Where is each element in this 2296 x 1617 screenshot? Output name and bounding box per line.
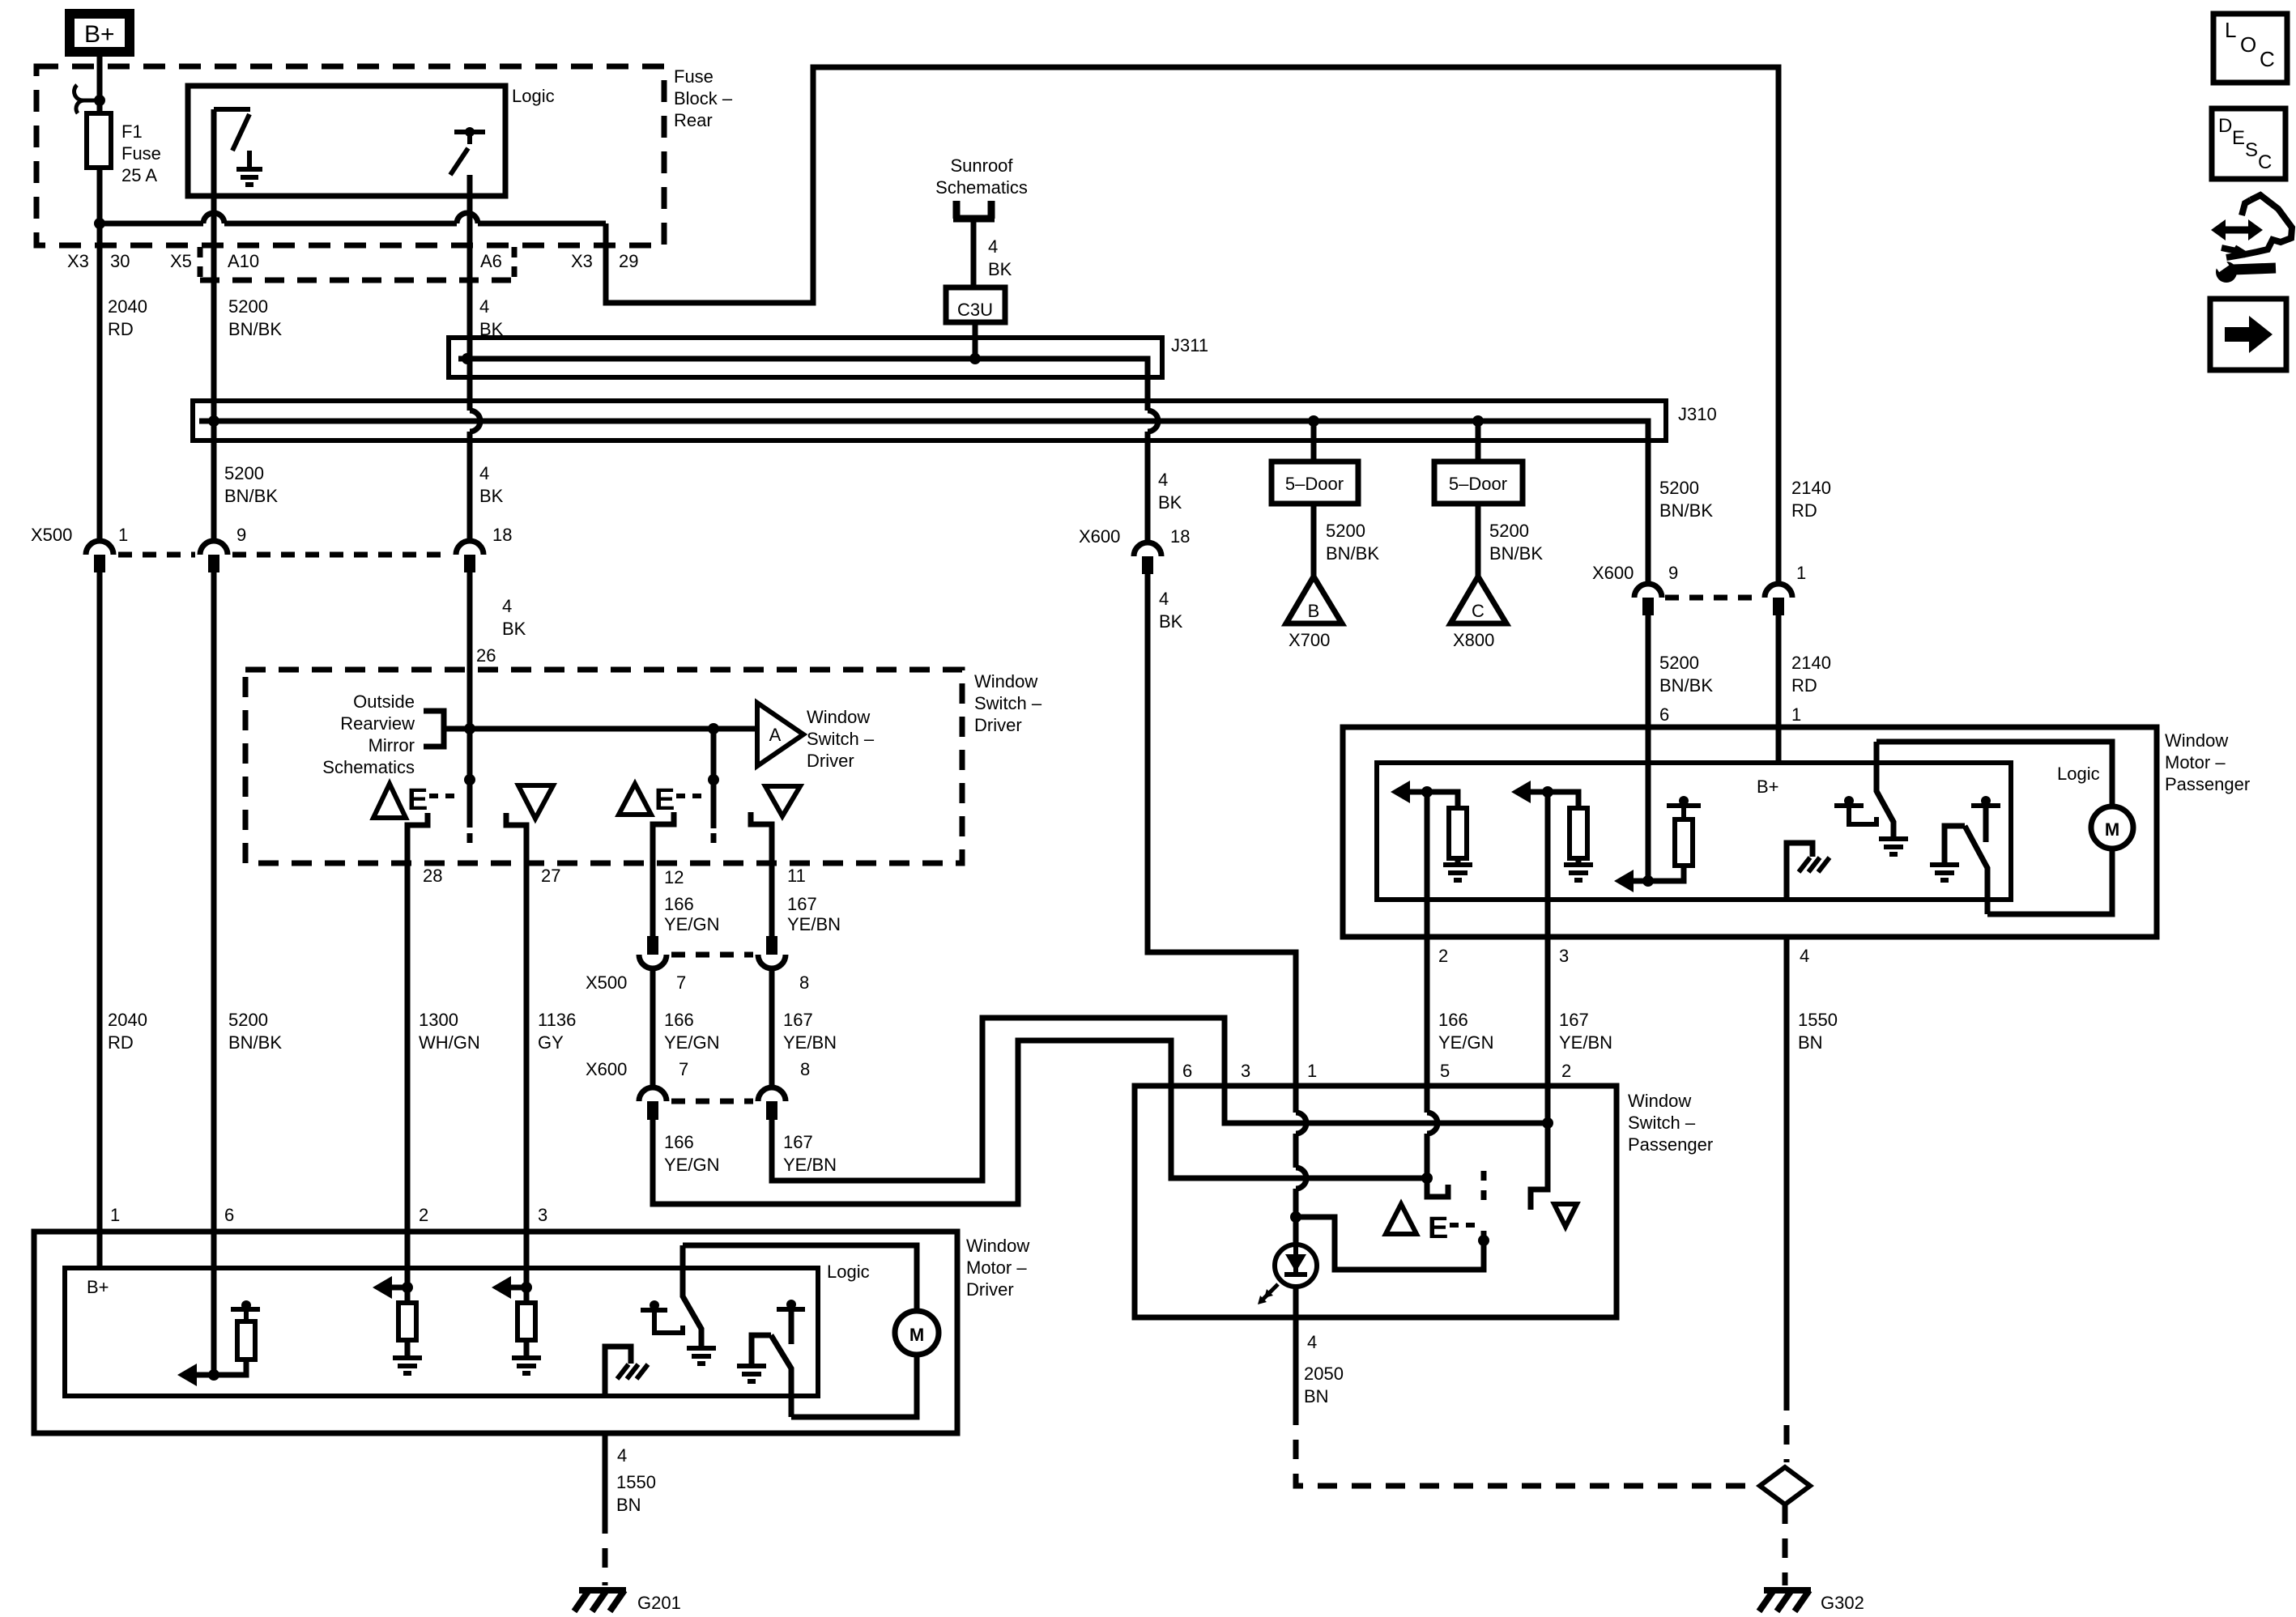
- svg-text:18: 18: [1170, 526, 1190, 547]
- svg-text:C: C: [2260, 47, 2275, 71]
- down triangle driver: [518, 785, 553, 819]
- svg-text:9: 9: [236, 525, 246, 545]
- connector X500 pin18: [456, 541, 483, 572]
- svg-text:4: 4: [479, 296, 489, 317]
- svg-text:2040: 2040: [108, 296, 147, 317]
- svg-text:25 A: 25 A: [121, 165, 157, 185]
- svg-text:4: 4: [502, 596, 512, 616]
- svg-text:1: 1: [110, 1205, 120, 1225]
- passenger relay1 pivot dot: [1844, 796, 1854, 806]
- svg-text:1136: 1136: [538, 1010, 576, 1030]
- window motor driver logic box: [65, 1268, 818, 1396]
- svg-text:9: 9: [1668, 563, 1678, 583]
- svg-text:5200: 5200: [1489, 521, 1529, 541]
- svg-text:2040: 2040: [108, 1010, 147, 1030]
- svg-text:A6: A6: [480, 251, 502, 271]
- svg-text:Logic: Logic: [827, 1262, 870, 1282]
- passenger pin3 resistor branch: [1548, 792, 1587, 865]
- driver relay1 pivot bar: [641, 1308, 667, 1313]
- ground G201 symbol: [574, 1590, 626, 1611]
- svg-text:166: 166: [1438, 1010, 1468, 1030]
- five door option box B: [1272, 462, 1358, 504]
- svg-text:BN/BK: BN/BK: [1659, 675, 1713, 696]
- wire X600-7 to passenger pin6: [653, 1040, 1427, 1204]
- wire pin1 dot to plunger: [1296, 1217, 1484, 1270]
- wire passenger pin2 down: [1425, 792, 1430, 900]
- hop pin5 over H1387: [1427, 1113, 1438, 1134]
- svg-text:C3U: C3U: [957, 300, 993, 320]
- motor M passenger: [2091, 806, 2133, 849]
- passenger relay1 blade: [1876, 763, 1893, 839]
- connector strip X5 tick right: [512, 247, 518, 279]
- svg-text:L: L: [2225, 18, 2236, 42]
- driver pin6 resistor: [237, 1321, 255, 1360]
- svg-text:BK: BK: [1158, 492, 1182, 513]
- junction dot J310 left: [208, 415, 219, 427]
- switch plunger 2: [711, 729, 717, 828]
- five door option box C: [1434, 462, 1523, 504]
- wire X600-1 to motor: [1776, 615, 1782, 727]
- driver relay1 ground: [687, 1348, 716, 1364]
- svg-text:1: 1: [118, 525, 128, 545]
- junction dot plunger 1: [464, 774, 475, 785]
- dashed ground run 2050: [1296, 1406, 1750, 1486]
- svg-text:167: 167: [1559, 1010, 1589, 1030]
- window motor passenger outer box: [1343, 727, 2157, 937]
- svg-text:2: 2: [419, 1205, 428, 1225]
- legend DESC box: [2212, 109, 2285, 179]
- svg-text:5–Door: 5–Door: [1285, 474, 1344, 494]
- svg-text:5: 5: [1440, 1061, 1450, 1081]
- switch to ground in logic: [214, 109, 250, 169]
- svg-text:Window: Window: [807, 707, 870, 727]
- driver pin3 ground: [512, 1358, 541, 1373]
- passenger pin2 ground: [1443, 865, 1472, 880]
- passenger pin3 ground: [1564, 865, 1593, 880]
- driver pin2 resistor: [398, 1287, 416, 1358]
- splice pack J311 box: [449, 338, 1162, 377]
- motor M driver: [895, 1311, 939, 1355]
- svg-text:28: 28: [423, 866, 442, 886]
- svg-text:11: 11: [787, 866, 806, 886]
- svg-text:C: C: [2258, 151, 2272, 173]
- passenger relay1 pivot bar: [1834, 803, 1864, 808]
- svg-text:Window: Window: [2165, 730, 2228, 751]
- svg-text:5200: 5200: [228, 1010, 268, 1030]
- contact pin 12: [653, 812, 674, 936]
- wire 2040 RD to X500-1: [97, 223, 103, 541]
- svg-text:1: 1: [1307, 1061, 1317, 1081]
- svg-text:4: 4: [1158, 470, 1168, 490]
- contact pin 11: [751, 812, 772, 936]
- driver relay2 ground: [737, 1366, 766, 1381]
- driver pin6 arrow line: [194, 1372, 214, 1378]
- junction dot plunger bottom: [1478, 1235, 1489, 1246]
- connector X500 7-8 dashed: [671, 952, 753, 958]
- window motor passenger logic box: [1377, 763, 2011, 900]
- svg-text:Passenger: Passenger: [2165, 774, 2250, 794]
- passenger relay2 blade: [1965, 826, 1987, 914]
- svg-text:1300: 1300: [419, 1010, 458, 1030]
- connector X600 pin7: [639, 1087, 667, 1120]
- svg-text:BN/BK: BN/BK: [228, 319, 282, 339]
- ground G302 symbol: [1759, 1590, 1811, 1611]
- junction dot J311 left: [462, 353, 473, 364]
- driver relay2 contact: [752, 1335, 771, 1366]
- svg-text:X3: X3: [571, 251, 593, 271]
- svg-text:X3: X3: [67, 251, 89, 271]
- junction dot driver pin2: [402, 1282, 413, 1293]
- svg-text:4: 4: [1159, 589, 1169, 609]
- svg-text:4: 4: [479, 463, 489, 483]
- passenger relay2 contact: [1945, 826, 1965, 865]
- svg-text:3: 3: [1241, 1061, 1250, 1081]
- driver pin2 ground: [393, 1358, 422, 1373]
- connector X600 pin8: [758, 1087, 786, 1120]
- driver relay2 blade: [771, 1335, 791, 1417]
- svg-text:Motor –: Motor –: [2165, 752, 2226, 772]
- svg-text:Schematics: Schematics: [935, 177, 1028, 198]
- svg-text:Logic: Logic: [512, 86, 555, 106]
- svg-text:X700: X700: [1289, 630, 1330, 650]
- driver relay2 pivot dot: [786, 1300, 796, 1309]
- svg-text:3: 3: [538, 1205, 547, 1225]
- legend wrench jaw notch: [2214, 258, 2229, 272]
- wire passenger motor pin3 to switch pin2: [1531, 900, 1548, 1210]
- passenger pin2 arrow line: [1408, 789, 1427, 795]
- svg-text:166: 166: [664, 1010, 694, 1030]
- svg-text:X5: X5: [170, 251, 192, 271]
- svg-text:2: 2: [1438, 946, 1448, 966]
- switch A6 pivot dot: [465, 127, 475, 137]
- driver pin6 resistor link: [214, 1360, 246, 1375]
- svg-text:C: C: [1472, 601, 1485, 621]
- E dash link driver 2: [676, 794, 708, 798]
- svg-text:M: M: [2105, 819, 2119, 840]
- svg-text:5200: 5200: [224, 463, 264, 483]
- svg-text:X600: X600: [1079, 526, 1120, 547]
- wire passenger motor pin4 out: [1784, 937, 1790, 1391]
- wire fuse to junction: [97, 168, 103, 223]
- svg-text:6: 6: [224, 1205, 234, 1225]
- svg-text:RD: RD: [108, 319, 134, 339]
- wire C3U to J311: [973, 322, 978, 359]
- svg-text:5–Door: 5–Door: [1449, 474, 1507, 494]
- svg-text:Driver: Driver: [974, 715, 1022, 735]
- svg-text:Motor –: Motor –: [966, 1257, 1027, 1278]
- svg-text:Outside: Outside: [353, 691, 415, 712]
- svg-text:BK: BK: [479, 486, 504, 506]
- logic box fuse block: [188, 86, 505, 196]
- svg-text:B: B: [1308, 601, 1320, 621]
- junction clip dot: [94, 95, 105, 106]
- dashed run diamond to G302: [1783, 1504, 1788, 1585]
- LED cathode bar: [1284, 1272, 1307, 1277]
- junction dot passenger H1387: [1542, 1117, 1553, 1129]
- junction dot plunger2: [708, 723, 719, 734]
- svg-text:Fuse: Fuse: [121, 143, 161, 164]
- down triangle driver 2: [765, 786, 800, 816]
- svg-text:B+: B+: [1757, 777, 1779, 797]
- wire B+ to fuse: [97, 52, 103, 113]
- wire J310 to 5-door C: [1476, 421, 1481, 577]
- connector X500 dashed line: [118, 552, 451, 558]
- connector C3U box: [946, 287, 1005, 322]
- legend hand icon outline: [2234, 195, 2292, 254]
- svg-text:8: 8: [800, 1059, 810, 1079]
- svg-text:5200: 5200: [1659, 478, 1699, 498]
- wire passenger motor pin2 to switch pin5: [1427, 900, 1448, 1197]
- svg-text:30: 30: [110, 251, 130, 271]
- svg-text:Driver: Driver: [966, 1279, 1014, 1300]
- wire passenger motor pin3 out: [1545, 900, 1551, 937]
- wire 1300 to driver motor pin2: [405, 1232, 411, 1287]
- svg-text:Mirror: Mirror: [368, 735, 415, 755]
- fuse F1: [87, 113, 111, 168]
- off page triangle B: [1286, 577, 1342, 623]
- driver chassis ground leg: [605, 1347, 631, 1396]
- wire hop J311 wire over J310: [1148, 411, 1158, 432]
- svg-text:2140: 2140: [1791, 478, 1831, 498]
- svg-text:166: 166: [664, 894, 694, 914]
- dashed ground run G201: [603, 1514, 608, 1585]
- svg-text:1: 1: [1796, 563, 1806, 583]
- svg-text:D: D: [2218, 115, 2232, 137]
- connector X600 pin18: [1134, 543, 1161, 574]
- svg-text:BN/BK: BN/BK: [1659, 500, 1713, 521]
- passenger relay1 ground: [1879, 839, 1908, 854]
- passenger pin6 contact bar: [1667, 806, 1701, 819]
- wire X500-7 to X600-7: [650, 968, 656, 1087]
- driver pin6 contact bar: [231, 1309, 260, 1321]
- svg-text:E: E: [654, 783, 675, 817]
- svg-text:RD: RD: [1791, 500, 1817, 521]
- passenger pin2 resistor branch: [1427, 792, 1467, 865]
- svg-text:WH/GN: WH/GN: [419, 1032, 480, 1053]
- svg-text:BN: BN: [1304, 1386, 1329, 1406]
- wire passenger motor pin2 out: [1425, 900, 1430, 937]
- mirror bracket: [424, 711, 444, 747]
- window switch driver dashed box: [245, 670, 962, 863]
- svg-text:M: M: [909, 1325, 924, 1345]
- svg-text:Switch –: Switch –: [974, 693, 1042, 713]
- wire passenger pin3 down: [1545, 792, 1551, 900]
- wire mirror to triangle A: [444, 726, 757, 732]
- sunroof bracket: [953, 201, 995, 219]
- svg-text:8: 8: [799, 972, 809, 993]
- E dash link passenger: [1450, 1223, 1481, 1228]
- wire driver pin4: [603, 1433, 608, 1514]
- passenger motor loop: [1876, 742, 2112, 914]
- svg-text:X600: X600: [586, 1059, 627, 1079]
- legend double arrow shaft: [2222, 227, 2251, 234]
- svg-text:YE/GN: YE/GN: [1438, 1032, 1493, 1053]
- plunger 1 dash: [467, 833, 473, 843]
- passenger relay2 pivot bar: [1971, 803, 2000, 808]
- passenger pin3 arrow: [1511, 781, 1531, 803]
- svg-text:S: S: [2245, 139, 2258, 161]
- wire X500-18 to driver switch pin26: [467, 572, 473, 729]
- svg-text:Window: Window: [966, 1236, 1029, 1256]
- svg-text:BN/BK: BN/BK: [224, 486, 278, 506]
- svg-text:BK: BK: [502, 619, 526, 639]
- passenger chassis ground leg: [1787, 843, 1813, 900]
- svg-text:Switch –: Switch –: [807, 729, 875, 749]
- wire J310 bus: [199, 421, 1648, 584]
- svg-text:Logic: Logic: [2057, 764, 2100, 784]
- junction dot C3U J311: [969, 353, 981, 364]
- driver pin3 arrow line: [509, 1285, 526, 1291]
- svg-text:7: 7: [676, 972, 686, 993]
- wire LED to pin4: [1293, 1287, 1299, 1406]
- legend hand icon cuff: [2221, 248, 2245, 257]
- svg-text:BK: BK: [1159, 611, 1183, 632]
- connector X500 pin1: [86, 541, 113, 572]
- svg-text:4: 4: [1307, 1332, 1317, 1352]
- ground in logic box: [236, 169, 262, 185]
- down triangle passenger: [1554, 1204, 1577, 1227]
- junction dot fuse output: [94, 218, 105, 229]
- svg-text:1: 1: [1791, 704, 1801, 725]
- svg-text:E: E: [407, 783, 428, 817]
- svg-text:A: A: [769, 725, 782, 745]
- svg-text:2140: 2140: [1791, 653, 1831, 673]
- svg-text:YE/BN: YE/BN: [783, 1155, 837, 1175]
- svg-text:2: 2: [1561, 1061, 1571, 1081]
- contact pin 27: [506, 813, 526, 1232]
- wire J311 bus: [458, 359, 1148, 543]
- svg-text:27: 27: [541, 866, 560, 886]
- connector X600 pin9: [1634, 584, 1662, 615]
- wire hop over A10: [203, 213, 224, 223]
- junction dot passenger pin1: [1290, 1211, 1301, 1223]
- passenger relay2 ground: [1930, 865, 1959, 880]
- svg-text:X600: X600: [1592, 563, 1634, 583]
- wire 5200 to driver motor: [211, 572, 217, 1375]
- wire hop A6 over J310: [470, 411, 480, 432]
- svg-text:X500: X500: [586, 972, 627, 993]
- junction dot plunger 2 low: [708, 774, 719, 785]
- wire A6 branch: [467, 175, 473, 541]
- svg-text:YE/GN: YE/GN: [664, 1155, 719, 1175]
- svg-text:Schematics: Schematics: [322, 757, 415, 777]
- contact pin 28: [407, 813, 428, 1232]
- junction dot pin26 wire: [464, 723, 475, 734]
- svg-text:Window: Window: [1628, 1091, 1691, 1111]
- svg-text:4: 4: [1800, 946, 1809, 966]
- svg-text:YE/GN: YE/GN: [664, 1032, 719, 1053]
- svg-text:1550: 1550: [1798, 1010, 1838, 1030]
- legend LOC box: [2213, 14, 2287, 83]
- connector X500 pin9: [200, 541, 228, 572]
- wire X500-8 to X600-8: [769, 968, 775, 1087]
- LED wire top: [1293, 1217, 1299, 1245]
- driver pin2 arrow: [373, 1276, 392, 1299]
- connector X600 7-8 dashed: [671, 1099, 753, 1104]
- svg-text:29: 29: [619, 251, 638, 271]
- wire X600-8 to passenger pin3: [772, 1018, 1548, 1181]
- passenger relay1 hook: [1849, 806, 1876, 824]
- svg-text:RD: RD: [108, 1032, 134, 1053]
- LED triangle: [1285, 1254, 1306, 1272]
- svg-text:Rear: Rear: [674, 110, 713, 130]
- svg-text:5200: 5200: [228, 296, 268, 317]
- svg-text:B+: B+: [87, 1277, 109, 1297]
- plunger passenger dashes: [1481, 1171, 1487, 1240]
- driver relay1 hook: [654, 1310, 683, 1333]
- svg-text:BN/BK: BN/BK: [1326, 543, 1379, 564]
- up triangle driver 2: [619, 784, 651, 815]
- junction dot J310 fivedoor C: [1472, 415, 1484, 427]
- svg-text:4: 4: [617, 1445, 627, 1466]
- LED wire inside: [1293, 1247, 1298, 1273]
- legend double arrow heads: [2211, 219, 2263, 240]
- svg-text:YE/BN: YE/BN: [787, 914, 841, 934]
- LED emission arrows: [1262, 1284, 1278, 1300]
- junction dot passenger H1455: [1421, 1172, 1433, 1184]
- wire X600-9 to motor: [1646, 615, 1651, 727]
- driver relay2 pivot bar: [777, 1307, 805, 1312]
- svg-text:O: O: [2240, 32, 2256, 57]
- svg-text:167: 167: [783, 1132, 813, 1152]
- fuse block rear dashed boundary: [36, 66, 664, 245]
- svg-text:BN/BK: BN/BK: [228, 1032, 282, 1053]
- connector X600 right dashed: [1665, 595, 1760, 601]
- E dash link driver up: [429, 794, 462, 798]
- wire J310 to 5-door B: [1311, 421, 1317, 577]
- wire passenger motor pin6 inside: [1646, 727, 1651, 881]
- wire J311 branch to passenger pin1: [1148, 574, 1296, 1217]
- svg-text:GY: GY: [538, 1032, 564, 1053]
- driver pin6 contact dot: [241, 1300, 251, 1310]
- passenger pin6 resistor link: [1648, 866, 1684, 881]
- svg-text:YE/BN: YE/BN: [783, 1032, 837, 1053]
- svg-text:G201: G201: [637, 1593, 681, 1613]
- junction dot passenger pin2: [1421, 786, 1433, 798]
- junction dot driver pin6: [208, 1369, 219, 1381]
- switch A6 blade: [450, 148, 468, 175]
- passenger relay2 pivot dot: [1981, 796, 1991, 806]
- connector strip X5 tick left: [198, 247, 203, 279]
- wire 2040 RD to driver motor: [97, 572, 103, 1268]
- LED circle: [1275, 1245, 1317, 1287]
- junction dot J310 fivedoor B: [1308, 415, 1319, 427]
- LED emission arrowheads: [1258, 1289, 1273, 1304]
- passenger pin6 arrow line: [1631, 879, 1648, 884]
- legend hand icon thumb: [2242, 200, 2251, 215]
- switch plunger 1: [467, 729, 473, 828]
- B+ power symbol box: [70, 14, 130, 52]
- driver relay1 blade: [683, 1245, 701, 1348]
- plunger 2 dash: [711, 833, 717, 843]
- driver relay1 pivot dot: [650, 1300, 659, 1310]
- svg-text:E: E: [2232, 127, 2245, 149]
- dashed ground run 1550: [1784, 1391, 1790, 1462]
- svg-text:A10: A10: [228, 251, 259, 271]
- driver relay2 pivot stub: [789, 1309, 794, 1344]
- svg-text:Block –: Block –: [674, 88, 733, 109]
- svg-text:Sunroof: Sunroof: [950, 155, 1013, 176]
- svg-text:BN/BK: BN/BK: [1489, 543, 1543, 564]
- junction dot passenger pin6: [1642, 875, 1654, 887]
- svg-text:Fuse: Fuse: [674, 66, 714, 87]
- switch A6 pivot bar: [454, 132, 485, 144]
- driver motor loop: [683, 1245, 917, 1417]
- hop pin1 over H1455: [1296, 1168, 1306, 1189]
- svg-text:G302: G302: [1821, 1593, 1864, 1613]
- svg-text:5200: 5200: [1659, 653, 1699, 673]
- svg-text:5200: 5200: [1326, 521, 1365, 541]
